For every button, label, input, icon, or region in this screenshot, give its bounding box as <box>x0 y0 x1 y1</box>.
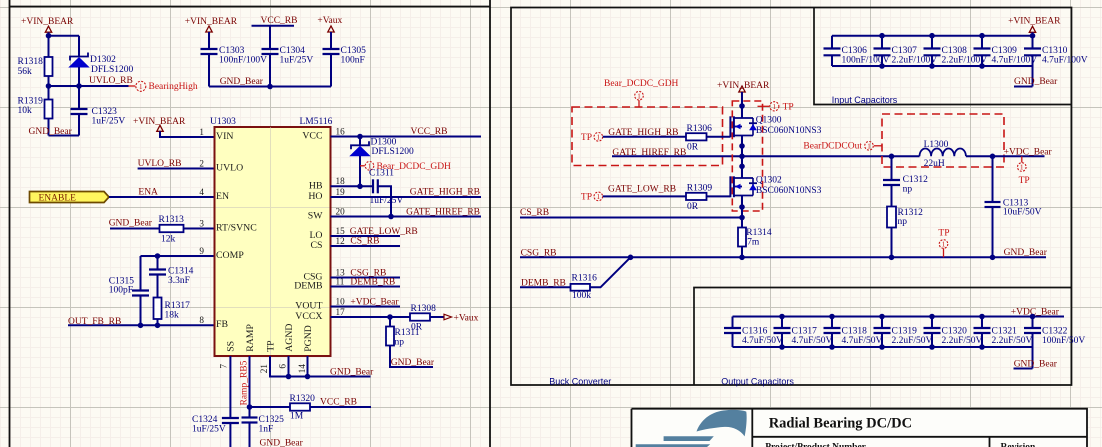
wire GND_Bear bus of decoupling caps <box>209 86 331 88</box>
svg-text:GATE_HIREF_RB: GATE_HIREF_RB <box>406 208 480 218</box>
wire RAMP to R1320 <box>250 406 291 408</box>
svg-text:+Vaux: +Vaux <box>317 16 342 26</box>
svg-text:BSC060N10NS3: BSC060N10NS3 <box>756 186 822 196</box>
svg-text:1nF: 1nF <box>259 424 274 434</box>
wire input caps top bus <box>832 35 1033 37</box>
svg-text:VIN: VIN <box>216 131 233 142</box>
resistor R1316 <box>571 284 591 291</box>
svg-text:1: 1 <box>139 83 143 91</box>
capacitor C1310 <box>1032 36 1034 49</box>
svg-text:TP: TP <box>783 102 794 112</box>
wire GATE_LOW_RB from pin 15 <box>331 235 401 237</box>
dashed box half-bridge group <box>732 101 762 211</box>
svg-text:TP: TP <box>581 133 592 143</box>
op-amp U1303 LM5116 body <box>215 127 331 356</box>
wire output caps GND_Bear drop <box>1014 347 1033 369</box>
capacitor C1303 <box>208 32 210 49</box>
svg-text:C1317: C1317 <box>792 327 818 337</box>
svg-text:GND_Bear: GND_Bear <box>1014 360 1058 370</box>
svg-text:DFLS1200: DFLS1200 <box>91 65 133 75</box>
svg-text:PGND: PGND <box>303 325 314 352</box>
svg-text:HB: HB <box>309 181 323 192</box>
svg-text:+VDC_Bear: +VDC_Bear <box>1004 147 1053 157</box>
svg-text:BSC060N10NS3: BSC060N10NS3 <box>756 126 822 136</box>
capacitor C1307 <box>881 36 883 49</box>
svg-text:1: 1 <box>637 92 641 100</box>
wire input caps GND_Bear drop <box>1014 66 1033 87</box>
capacitor C1325 <box>242 416 258 418</box>
svg-text:ENA: ENA <box>138 188 158 198</box>
off-sheet connector BearingHigh <box>129 85 136 87</box>
wire DEMB_RB to R1316 <box>520 286 571 288</box>
svg-text:C1321: C1321 <box>992 327 1018 337</box>
svg-text:Q1300: Q1300 <box>756 116 782 126</box>
svg-text:1: 1 <box>773 103 777 111</box>
svg-text:10uF/50V: 10uF/50V <box>1003 208 1042 218</box>
svg-text:R1316: R1316 <box>572 274 598 284</box>
wire SW node to Q1302 drain <box>741 156 743 178</box>
title block background <box>632 408 1088 447</box>
svg-text:+VDC_Bear: +VDC_Bear <box>350 297 399 307</box>
svg-text:L1300: L1300 <box>924 140 949 150</box>
svg-text:C1325: C1325 <box>259 415 285 425</box>
svg-text:TP: TP <box>265 340 276 352</box>
svg-text:C1320: C1320 <box>942 327 968 337</box>
wire UVLO_RB to pin 2 <box>138 168 215 170</box>
capacitor C1305 <box>330 32 332 49</box>
wire CS_RB to MOSFET source <box>520 217 742 219</box>
title block frame <box>632 409 1088 447</box>
wire AGND PGND TP pins to GND_Bear <box>270 356 371 377</box>
svg-text:4: 4 <box>199 187 204 197</box>
svg-text:R1308: R1308 <box>411 304 437 314</box>
right sheet box Buck Converter <box>511 8 1072 386</box>
diode D1302 <box>70 53 88 61</box>
svg-text:TP: TP <box>1019 176 1030 186</box>
svg-text:7m: 7m <box>747 237 760 247</box>
svg-text:ENABLE: ENABLE <box>39 193 77 203</box>
capacitor C1323 <box>71 108 88 110</box>
svg-text:CS_RB: CS_RB <box>350 237 379 247</box>
capacitor C1306 <box>831 36 833 49</box>
svg-text:4.7uF/50V: 4.7uF/50V <box>742 336 783 346</box>
svg-text:GND_Bear: GND_Bear <box>1014 77 1058 87</box>
svg-text:VCC_RB: VCC_RB <box>411 127 448 137</box>
svg-text:1uF/25V: 1uF/25V <box>92 116 126 126</box>
svg-text:100nF/100V: 100nF/100V <box>219 56 267 66</box>
capacitor C1316 <box>732 317 734 329</box>
resistor R1312 <box>887 207 896 228</box>
svg-text:C1322: C1322 <box>1042 327 1068 337</box>
svg-text:R1318: R1318 <box>18 57 44 67</box>
capacitor C1324 <box>222 417 239 419</box>
svg-text:SW: SW <box>308 211 323 222</box>
svg-text:np: np <box>903 185 913 195</box>
wire OUT_FB_RB to pin 8 <box>68 324 215 326</box>
capacitor C1304 <box>269 26 271 49</box>
svg-text:100nF/50V: 100nF/50V <box>1042 336 1085 346</box>
svg-text:0R: 0R <box>687 202 699 212</box>
svg-text:Bear_DCDC_GDH: Bear_DCDC_GDH <box>604 79 679 89</box>
svg-text:100k: 100k <box>572 291 591 301</box>
svg-text:C1311: C1311 <box>369 169 394 179</box>
svg-text:Revision: Revision <box>1001 442 1037 447</box>
svg-text:1: 1 <box>199 127 204 137</box>
svg-text:100nF: 100nF <box>341 56 365 66</box>
svg-text:6: 6 <box>277 364 287 369</box>
capacitor C1317 <box>781 317 783 329</box>
svg-text:GND_Bear: GND_Bear <box>330 368 374 378</box>
svg-text:2: 2 <box>199 158 204 168</box>
wire R1318 to UVLO node <box>48 76 50 86</box>
svg-text:2.2uF/50V: 2.2uF/50V <box>892 336 933 346</box>
svg-text:1: 1 <box>942 241 946 249</box>
svg-text:2.2uF/50V: 2.2uF/50V <box>942 336 983 346</box>
svg-text:RT/SVNC: RT/SVNC <box>216 222 257 233</box>
svg-text:4.7uF/100V: 4.7uF/100V <box>1042 55 1088 65</box>
svg-text:R1320: R1320 <box>290 394 316 404</box>
svg-text:VCC_RB: VCC_RB <box>320 398 357 408</box>
svg-text:+VIN_BEAR: +VIN_BEAR <box>185 17 238 27</box>
test point TP (+VDC_Bear) <box>1021 156 1023 162</box>
svg-text:GND_Bear: GND_Bear <box>391 358 435 368</box>
svg-text:1: 1 <box>597 134 601 142</box>
svg-text:GATE_LOW_RB: GATE_LOW_RB <box>608 185 676 195</box>
svg-text:UVLO_RB: UVLO_RB <box>89 76 133 86</box>
dashed box Bear_DCDC_GDH group <box>572 107 723 166</box>
svg-text:COMP: COMP <box>216 250 244 261</box>
svg-text:Ramp_RB5: Ramp_RB5 <box>240 360 250 405</box>
Input Capacitors box <box>814 8 1072 105</box>
svg-text:R1311: R1311 <box>395 328 420 338</box>
svg-text:19: 19 <box>336 187 346 197</box>
svg-text:R1314: R1314 <box>746 228 772 238</box>
wire +VIN_BEAR to R1318 and D1302 <box>49 32 80 57</box>
svg-text:np: np <box>898 217 908 227</box>
wire input caps bottom bus <box>832 65 1033 67</box>
capacitor C1313 <box>992 156 994 202</box>
svg-text:D1300: D1300 <box>371 137 397 147</box>
capacitor C1319 <box>881 317 883 329</box>
svg-text:GATE_LOW_RB: GATE_LOW_RB <box>350 227 418 237</box>
capacitor C1308 <box>931 36 933 49</box>
svg-text:GND_Bear: GND_Bear <box>109 219 153 229</box>
logo swoosh <box>697 410 747 437</box>
wire R1314 to CSG bus <box>741 247 743 258</box>
wire R1320 to VCC_RB <box>310 406 371 408</box>
svg-text:18: 18 <box>336 176 346 186</box>
svg-text:0R: 0R <box>687 142 699 152</box>
wire CSG_RB bus <box>520 256 1046 258</box>
svg-text:C1324: C1324 <box>192 415 218 425</box>
wire R1316 diagonal to CSG_RB <box>590 257 631 287</box>
svg-text:4.7uF/50V: 4.7uF/50V <box>842 336 883 346</box>
svg-text:GND_Bear: GND_Bear <box>220 77 264 87</box>
wire +VDC_Bear from pin 10 <box>331 306 401 308</box>
svg-text:7: 7 <box>218 364 228 369</box>
svg-text:VCC: VCC <box>302 131 322 142</box>
svg-text:22uH: 22uH <box>924 159 945 169</box>
wire output caps top bus +VDC_Bear <box>733 316 1065 318</box>
left sheet border <box>10 0 491 447</box>
svg-text:12: 12 <box>336 236 346 246</box>
wire UVLO_RB horizontal <box>49 85 129 87</box>
svg-text:4.7uF/50V: 4.7uF/50V <box>792 336 833 346</box>
svg-text:DEMB: DEMB <box>294 281 323 292</box>
capacitor C1318 <box>831 317 833 329</box>
wire R1311 to GND_Bear <box>390 346 433 368</box>
wire R1308 to +Vaux port <box>430 316 444 318</box>
svg-text:10: 10 <box>336 296 346 306</box>
svg-text:Output Capacitors: Output Capacitors <box>721 376 794 386</box>
svg-text:14: 14 <box>297 364 307 374</box>
capacitor C1321 <box>981 317 983 329</box>
dashed box output filter group <box>882 114 1004 167</box>
wire GND_Bear bottom-left <box>49 135 80 137</box>
wire GATE_HIGH_RB from pin 19 <box>331 196 482 198</box>
svg-text:C1314: C1314 <box>168 266 194 276</box>
svg-text:TP: TP <box>938 229 949 239</box>
svg-text:17: 17 <box>336 307 346 317</box>
resistor R1314 <box>738 228 746 247</box>
svg-text:GND_Bear: GND_Bear <box>260 438 304 447</box>
svg-text:Q1302: Q1302 <box>756 176 782 186</box>
svg-text:R1309: R1309 <box>687 183 713 193</box>
svg-text:1: 1 <box>867 143 871 151</box>
svg-text:CS: CS <box>311 240 323 251</box>
off-sheet connector Bear_DCDC_GDH (left sheet) <box>360 165 365 167</box>
svg-text:1uF/25V: 1uF/25V <box>192 424 226 434</box>
svg-text:1: 1 <box>597 193 601 201</box>
node UVLO_RB junctions <box>46 83 52 89</box>
wire CSG_RB from pin 13 <box>331 277 401 279</box>
svg-text:12k: 12k <box>161 234 176 244</box>
svg-text:EN: EN <box>216 191 229 202</box>
capacitor C1312 <box>891 156 893 180</box>
svg-text:56k: 56k <box>18 67 33 77</box>
wire VCC_RB from pin 16 <box>331 136 482 138</box>
wire GATE_HIGH_RB to R1306 <box>603 136 686 138</box>
capacitor C1315 <box>140 256 142 291</box>
wire GATE_LOW_RB to R1309 <box>603 195 686 197</box>
resistor R1308 <box>410 313 430 320</box>
svg-text:BearingHigh: BearingHigh <box>149 82 198 92</box>
svg-text:+VIN_BEAR: +VIN_BEAR <box>1008 17 1061 27</box>
resistor R1317 <box>154 298 162 320</box>
transistor Q1300 <box>729 116 731 137</box>
svg-text:4.7uF/100V: 4.7uF/100V <box>992 55 1038 65</box>
svg-text:UVLO: UVLO <box>216 162 243 173</box>
wire L1300 to +VDC_Bear <box>966 155 1045 157</box>
resistor R1313 <box>160 225 184 232</box>
resistor R1309 <box>686 193 707 200</box>
svg-text:100pF: 100pF <box>109 286 133 296</box>
svg-text:R1306: R1306 <box>687 124 713 134</box>
wire COMP pin 9 <box>141 255 215 257</box>
wire Q1300 source to SW node <box>741 136 743 157</box>
svg-text:R1317: R1317 <box>165 301 191 311</box>
svg-text:Project/Product Number: Project/Product Number <box>765 442 866 447</box>
diode D1300 <box>359 137 361 146</box>
wire Q1302 source to CS node <box>741 196 743 228</box>
svg-text:DEMB_RB: DEMB_RB <box>350 277 395 287</box>
wire DEMB_RB from pin 11 <box>331 286 401 288</box>
wire SS pin to C1324 <box>229 356 231 418</box>
svg-text:np: np <box>395 337 405 347</box>
transistor Q1302 <box>729 176 731 197</box>
wire SW node GATE_HIREF to L1300 <box>612 155 920 157</box>
svg-text:DFLS1200: DFLS1200 <box>372 147 414 157</box>
svg-text:1M: 1M <box>290 412 304 422</box>
svg-text:SS: SS <box>226 341 237 352</box>
svg-text:Input Capacitors: Input Capacitors <box>832 95 898 105</box>
wire RAMP pin to C1325 and R1320 <box>249 356 251 418</box>
svg-text:C1319: C1319 <box>892 327 918 337</box>
port +Vaux arrow <box>444 314 452 320</box>
capacitor C1320 <box>931 317 933 329</box>
svg-text:TP: TP <box>581 193 592 203</box>
svg-text:FB: FB <box>216 319 228 330</box>
svg-text:1: 1 <box>1020 164 1024 172</box>
svg-text:C1316: C1316 <box>742 327 768 337</box>
wire GND_Bear to R1313 <box>110 228 160 230</box>
svg-text:C1318: C1318 <box>842 327 868 337</box>
svg-text:+VIN_BEAR: +VIN_BEAR <box>21 17 74 27</box>
inductor L1300 <box>920 148 966 156</box>
svg-text:OUT_FB_RB: OUT_FB_RB <box>68 317 121 327</box>
svg-text:VOUT: VOUT <box>295 301 322 312</box>
svg-text:RAMP: RAMP <box>245 323 256 351</box>
svg-text:2.2uF/50V: 2.2uF/50V <box>992 336 1033 346</box>
test point TP (switch node top) <box>758 105 770 107</box>
svg-text:3: 3 <box>199 218 204 228</box>
wire output caps bottom bus <box>733 346 1033 348</box>
wire R1312 to CSG bus <box>891 228 893 258</box>
wire VCCX pin 17 to R1308 <box>331 316 411 318</box>
grid lines over IC body <box>216 128 330 356</box>
wire CS_RB from pin 12 <box>331 245 401 247</box>
wire VIN pin 1 <box>160 131 215 137</box>
svg-text:10k: 10k <box>18 106 33 116</box>
wire R1313 to pin 3 <box>184 228 215 230</box>
wire R1306 to Q1300 gate <box>707 136 731 138</box>
svg-text:GATE_HIGH_RB: GATE_HIGH_RB <box>410 188 480 198</box>
capacitor C1322 <box>1032 317 1034 329</box>
svg-text:GND_Bear: GND_Bear <box>29 127 73 137</box>
resistor R1306 <box>686 133 707 140</box>
port ENABLE <box>30 192 110 203</box>
svg-text:3.3nF: 3.3nF <box>168 276 190 286</box>
resistor R1311 <box>389 317 391 327</box>
svg-text:U1303: U1303 <box>210 117 236 127</box>
logo bar middle <box>664 436 714 441</box>
svg-text:Buck Converter: Buck Converter <box>549 376 611 386</box>
svg-text:15: 15 <box>336 226 346 236</box>
svg-text:9: 9 <box>199 246 204 256</box>
svg-text:16: 16 <box>336 126 346 136</box>
wire ENA <box>109 196 215 198</box>
svg-text:8: 8 <box>199 315 204 325</box>
svg-text:+Vaux: +Vaux <box>454 313 479 323</box>
capacitor C1314 <box>157 256 159 270</box>
svg-text:18k: 18k <box>165 311 180 321</box>
svg-text:1uF/25V: 1uF/25V <box>280 56 314 66</box>
svg-text:GND_Bear: GND_Bear <box>1004 248 1048 258</box>
svg-text:BearDCDCOut: BearDCDCOut <box>803 141 862 151</box>
svg-text:D1302: D1302 <box>90 55 116 65</box>
resistor R1320 <box>290 403 310 410</box>
Output Capacitors box <box>694 288 1072 386</box>
wire GATE_HIREF_RB from pin 20 <box>331 216 482 218</box>
capacitor C1309 <box>981 36 983 49</box>
svg-text:R1313: R1313 <box>159 215 185 225</box>
wire R1309 to Q1302 gate <box>707 195 731 197</box>
svg-text:R1319: R1319 <box>18 96 44 106</box>
logo bar bottom <box>636 444 711 447</box>
svg-text:VCCX: VCCX <box>295 311 322 322</box>
svg-text:HO: HO <box>308 191 322 202</box>
svg-text:Radial Bearing DC/DC: Radial Bearing DC/DC <box>769 416 912 432</box>
svg-text:20: 20 <box>336 206 346 216</box>
resistor R1318 <box>45 57 53 76</box>
svg-text:21: 21 <box>259 364 269 374</box>
resistor R1319 <box>45 100 53 119</box>
wire +VIN_BEAR to Q1300 drain <box>741 92 743 118</box>
svg-text:LM5116: LM5116 <box>300 117 333 127</box>
svg-text:AGND: AGND <box>284 323 295 351</box>
